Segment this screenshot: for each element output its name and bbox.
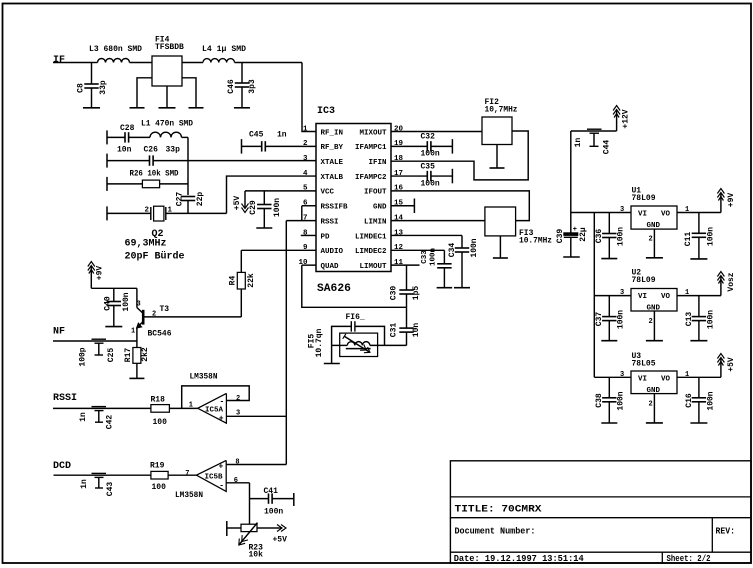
svg-text:VO: VO <box>661 376 671 384</box>
svg-text:IC5B: IC5B <box>205 474 224 482</box>
svg-text:C31: C31 <box>390 323 399 338</box>
svg-text:1n: 1n <box>79 412 88 422</box>
crystal Q2 <box>150 207 152 220</box>
ground under C40 <box>105 326 122 328</box>
svg-text:C29: C29 <box>249 200 258 215</box>
filter FI4 <box>152 56 182 86</box>
svg-text:100n: 100n <box>707 310 716 329</box>
wire +9V rail to T3 collector <box>91 287 137 289</box>
wire L1 to vertical <box>182 136 189 138</box>
svg-text:2: 2 <box>152 311 156 319</box>
svg-text:+5V: +5V <box>727 357 736 372</box>
ground FI4 left <box>130 107 145 109</box>
svg-text:1n: 1n <box>80 479 89 489</box>
svg-text:GND: GND <box>373 204 387 212</box>
svg-text:GND: GND <box>647 387 661 395</box>
power +5V at U3 output <box>720 358 722 377</box>
svg-text:L1 470n SMD: L1 470n SMD <box>141 120 193 129</box>
svg-text:78L05: 78L05 <box>632 360 656 369</box>
capacitor C25 <box>92 338 107 340</box>
capacitor C41 <box>250 498 269 500</box>
ground under C33 <box>437 287 453 289</box>
ground FI4 right <box>189 107 204 109</box>
svg-text:C39: C39 <box>556 229 565 244</box>
filter FI2 <box>482 117 512 145</box>
wire DCD row <box>54 474 151 476</box>
wire RSSI vertical to opamps <box>285 221 287 465</box>
svg-text:+5V: +5V <box>233 196 242 211</box>
ground FI2 <box>490 167 505 169</box>
wire +12V rail <box>571 130 617 132</box>
wire U1 GND pin <box>653 229 655 257</box>
svg-text:VCC: VCC <box>321 189 335 197</box>
wire minus input down to pot <box>249 483 251 524</box>
svg-text:1: 1 <box>189 402 193 410</box>
svg-text:100n: 100n <box>707 391 716 410</box>
svg-text:C37: C37 <box>595 312 604 327</box>
svg-text:IFAMPC1: IFAMPC1 <box>355 144 387 152</box>
svg-text:100: 100 <box>152 483 167 492</box>
svg-text:2: 2 <box>144 207 149 215</box>
svg-text:3: 3 <box>620 371 624 379</box>
capacitor C30 <box>406 265 408 290</box>
svg-text:6: 6 <box>234 477 238 485</box>
svg-text:C25: C25 <box>107 348 116 363</box>
ground U1 <box>646 257 663 259</box>
svg-text:C38: C38 <box>595 393 604 408</box>
wire IC3 pin 19 row <box>391 145 427 147</box>
svg-text:22k: 22k <box>247 273 256 288</box>
capacitor C16 <box>698 377 700 398</box>
IC U3 SA626 body IC3 <box>316 124 391 272</box>
power +9V at U1 output <box>720 193 722 213</box>
wire U2 GND pin <box>653 311 655 340</box>
svg-text:LIMIN: LIMIN <box>364 218 387 226</box>
wire crystal to pin4 riser <box>166 212 227 214</box>
svg-text:C46: C46 <box>227 79 236 94</box>
svg-text:3: 3 <box>620 206 624 214</box>
wire IF to L3 <box>92 62 98 64</box>
ground U3 <box>646 422 663 424</box>
ground under C46 <box>234 107 250 109</box>
wire R26 to vertical <box>160 183 188 185</box>
node C32 end stub <box>451 139 453 154</box>
svg-text:IFAMPC2: IFAMPC2 <box>355 174 387 182</box>
wire IC3 pin 13 row <box>391 234 462 236</box>
svg-text:R4: R4 <box>229 276 238 286</box>
power +5V at VCC <box>244 191 246 208</box>
capacitor C29 <box>263 191 265 205</box>
svg-text:+: + <box>219 463 224 472</box>
ground under C13 <box>690 340 707 342</box>
wire R19 to IC5B output <box>168 474 196 476</box>
wire R18 to IC5A output <box>169 407 197 409</box>
svg-text:100n: 100n <box>122 292 131 311</box>
svg-text:+: + <box>219 415 224 424</box>
ground under R17 <box>129 377 144 379</box>
svg-text:LM358N: LM358N <box>175 491 203 500</box>
svg-text:78L09: 78L09 <box>632 194 656 203</box>
node pin15 stub end <box>413 199 415 214</box>
svg-text:C43: C43 <box>106 482 115 497</box>
svg-text:+9V: +9V <box>96 266 105 281</box>
svg-text:RF_BY: RF_BY <box>321 144 344 152</box>
wiper arrow FI5 <box>344 336 370 352</box>
node C41 end stub <box>293 493 295 506</box>
svg-text:Document Number:: Document Number: <box>455 526 536 537</box>
svg-text:1: 1 <box>131 328 135 336</box>
ground U2 <box>646 340 663 342</box>
svg-text:1n: 1n <box>277 130 287 139</box>
wire U1 output row <box>677 212 721 214</box>
svg-text:100: 100 <box>153 418 168 427</box>
svg-text:R18: R18 <box>151 396 166 405</box>
svg-text:IFIN: IFIN <box>368 159 386 167</box>
wire FI4 center ground pin <box>166 86 168 108</box>
svg-text:Vosz: Vosz <box>727 272 736 291</box>
capacitor C45 <box>261 141 263 151</box>
wire bracket pin6-pin7 <box>301 206 303 221</box>
svg-text:RSSI: RSSI <box>53 393 77 404</box>
svg-text:L4 1µ SMD: L4 1µ SMD <box>202 45 246 54</box>
svg-text:100p: 100p <box>79 347 88 366</box>
inductor L1 <box>150 132 182 137</box>
filter FI3 <box>485 207 516 236</box>
svg-text:DCD: DCD <box>53 461 71 472</box>
wire IC3 pin 10 QUAD to discriminator <box>302 264 316 266</box>
svg-text:33p: 33p <box>166 146 181 155</box>
svg-text:+5V: +5V <box>273 536 288 545</box>
wire IC3 pin 8 stub <box>301 234 316 236</box>
svg-text:C41: C41 <box>264 487 279 496</box>
wire top rail down to IC3 pin 1 <box>302 63 316 132</box>
wire IC3 pin 5 VCC row <box>245 190 316 192</box>
svg-text:C36: C36 <box>595 229 604 244</box>
svg-text:1: 1 <box>303 125 308 133</box>
svg-text:RF_IN: RF_IN <box>321 129 344 137</box>
capacitor C38 <box>608 377 610 398</box>
wire +12V trunk down to U1 <box>570 131 572 213</box>
ground under C16 <box>690 422 707 424</box>
ground FI3 <box>493 257 508 259</box>
wire crystal row left <box>107 212 151 214</box>
capacitor FI6_ parallel <box>332 326 352 345</box>
svg-text:LM358N: LM358N <box>190 372 218 381</box>
capacitor C11 <box>698 213 700 234</box>
wire IC5A feedback loop <box>182 386 250 409</box>
svg-text:L3 680n SMD: L3 680n SMD <box>89 45 142 54</box>
ground under C39 <box>563 256 580 258</box>
svg-text:LIMDEC2: LIMDEC2 <box>355 248 387 256</box>
svg-text:69,3MHz: 69,3MHz <box>125 239 167 250</box>
node C35 end stub <box>451 169 453 184</box>
resistor R19 <box>151 471 168 479</box>
svg-text:SA626: SA626 <box>317 283 351 295</box>
resistor R4 <box>240 250 242 272</box>
svg-text:TITLE: 70CMRX: TITLE: 70CMRX <box>455 505 542 516</box>
capacitor C39 electrolytic <box>570 213 572 233</box>
svg-text:-: - <box>219 482 224 491</box>
wire U1 input row <box>571 212 631 214</box>
title block <box>450 461 751 563</box>
wire IC5B minus input row <box>226 482 249 484</box>
svg-text:100n: 100n <box>617 227 626 246</box>
svg-text:IC5A: IC5A <box>205 407 224 415</box>
node C45 end stub <box>241 139 243 154</box>
inductor L3 <box>98 59 130 63</box>
svg-text:100n: 100n <box>421 179 440 188</box>
wire row C28 <box>107 136 125 138</box>
svg-text:100n: 100n <box>617 391 626 410</box>
svg-text:C32: C32 <box>421 133 436 142</box>
svg-text:3p3: 3p3 <box>248 79 257 94</box>
svg-text:10,7MHz: 10,7MHz <box>485 106 518 115</box>
node stub row crystal <box>106 206 108 220</box>
svg-text:LIMDEC1: LIMDEC1 <box>355 233 387 241</box>
svg-text:10n: 10n <box>117 146 132 155</box>
wire IF input <box>53 62 92 64</box>
inductor L4 <box>203 59 235 63</box>
capacitor C35 <box>426 171 428 181</box>
svg-text:2: 2 <box>649 236 653 244</box>
svg-text:C13: C13 <box>685 312 694 327</box>
wire riser to IC3 pin 4 <box>227 176 317 213</box>
svg-text:C44: C44 <box>603 140 612 155</box>
svg-text:78L09: 78L09 <box>632 276 656 285</box>
ground under C29 <box>256 227 272 229</box>
svg-text:GND: GND <box>647 222 661 230</box>
wire U2 output row <box>677 295 721 297</box>
wire IC3 pin 2 row <box>242 145 262 147</box>
regulator U2 78L09 <box>631 289 677 312</box>
svg-text:RSSI: RSSI <box>321 218 339 226</box>
capacitor C28 <box>124 132 126 142</box>
wire FI2 ground pin <box>496 145 498 168</box>
svg-text:IC3: IC3 <box>317 106 335 117</box>
ground under C34 <box>454 287 470 289</box>
wire U2 input row <box>594 295 631 297</box>
wire U3 output row <box>677 376 721 378</box>
capacitor C36 <box>608 213 610 234</box>
svg-text:FI6_: FI6_ <box>346 313 365 322</box>
wire FI3 ground pin <box>499 236 501 258</box>
svg-text:GND: GND <box>647 304 661 312</box>
wire trunk down to U2 U3 <box>593 213 595 378</box>
svg-text:10.7qn: 10.7qn <box>315 328 324 357</box>
svg-text:100n: 100n <box>273 198 282 217</box>
ground under C38 <box>601 422 617 424</box>
capacitor C26 <box>149 155 151 165</box>
svg-text:R19: R19 <box>150 461 165 470</box>
wire IC3 pin 15 GND stub <box>391 205 414 207</box>
svg-text:+9V: +9V <box>727 193 736 208</box>
svg-text:AUDIO: AUDIO <box>321 248 344 256</box>
ground under C8 <box>83 107 100 109</box>
wire row XTALE pin3 <box>107 160 150 162</box>
wire IC3 pin 20 MIXOUT to FI2 <box>391 131 482 133</box>
potentiometer R23 <box>226 521 228 536</box>
wire row R26 left <box>107 183 142 185</box>
wire U3 input row <box>594 376 631 378</box>
svg-text:100n: 100n <box>421 150 440 159</box>
wire IC3 pin 7 RSSI <box>286 220 316 222</box>
wire IC3 pin 14 LIMIN to FI3 <box>391 220 485 222</box>
svg-text:REV:: REV: <box>716 526 736 537</box>
svg-text:33p: 33p <box>99 80 108 95</box>
wire IC3 pin 16 IFOUT to FI3 <box>391 191 529 221</box>
capacitor C8 <box>91 63 93 85</box>
svg-text:IF: IF <box>53 55 65 66</box>
capacitor C31 <box>406 307 408 328</box>
ground FI5 <box>324 363 340 365</box>
wire IC3 pin 17 row <box>391 175 427 177</box>
svg-text:LIMOUT: LIMOUT <box>359 263 387 271</box>
resistor R17 <box>136 341 138 348</box>
svg-text:C28: C28 <box>120 124 135 133</box>
ground under C36 <box>601 258 617 260</box>
svg-text:XTALE: XTALE <box>321 159 344 167</box>
ground under C11 <box>690 258 707 260</box>
wire U3 GND pin <box>653 394 655 423</box>
power +9V arrow <box>90 266 92 288</box>
node stub row R26 <box>106 177 108 191</box>
svg-text:QUAD: QUAD <box>321 263 340 271</box>
svg-text:2k2: 2k2 <box>141 347 150 362</box>
capacitor C37 <box>608 296 610 317</box>
svg-text:3: 3 <box>620 289 624 297</box>
svg-text:C42: C42 <box>106 415 115 430</box>
op-amp IC5B <box>196 460 226 491</box>
ground FI4 center <box>159 107 176 109</box>
svg-text:100n: 100n <box>430 248 438 267</box>
svg-text:NF: NF <box>53 327 65 338</box>
svg-text:C8: C8 <box>77 83 86 93</box>
power Vosz at U2 output <box>720 276 722 296</box>
svg-text:VO: VO <box>661 211 671 219</box>
svg-text:22p: 22p <box>196 192 205 207</box>
wire IC3 pin 9 AUDIO row <box>241 249 316 251</box>
capacitor C40 <box>113 288 115 301</box>
svg-text:XTALB: XTALB <box>321 174 344 182</box>
svg-text:VO: VO <box>661 293 671 301</box>
svg-text:22µ: 22µ <box>579 227 588 242</box>
svg-text:10n: 10n <box>412 323 421 338</box>
svg-text:R17: R17 <box>124 348 133 363</box>
svg-text:C26: C26 <box>144 146 159 155</box>
wire IC3 pin 11 row <box>391 264 420 266</box>
wire RSSI row <box>53 407 151 409</box>
svg-text:7: 7 <box>185 470 189 478</box>
svg-text:R26 10k SMD: R26 10k SMD <box>130 170 179 179</box>
capacitor C43 <box>92 472 107 474</box>
svg-text:VI: VI <box>638 211 647 219</box>
svg-text:Date: 19.12.1997 13:51:14: Date: 19.12.1997 13:51:14 <box>454 553 584 564</box>
wire FI2 output to pin 18 IFIN <box>391 131 528 180</box>
wire L3 to FI4 <box>130 62 153 64</box>
resistor R26 <box>142 180 159 188</box>
svg-text:IFOUT: IFOUT <box>364 189 387 197</box>
op-amp IC5A <box>198 393 227 423</box>
svg-text:C35: C35 <box>421 162 436 171</box>
svg-text:3: 3 <box>236 410 240 418</box>
svg-text:100n: 100n <box>470 238 479 257</box>
wire IC5A plus input row <box>226 415 286 417</box>
capacitor C44 <box>587 128 602 130</box>
wire C28 to L1 <box>129 136 150 138</box>
ground under C37 <box>601 340 617 342</box>
svg-text:2: 2 <box>649 401 653 409</box>
svg-text:C40: C40 <box>104 296 113 311</box>
regulator U3 78L05 <box>631 371 677 394</box>
svg-text:2: 2 <box>649 318 653 326</box>
wire IC3 pin 6 stub <box>302 205 316 207</box>
capacitor C27 <box>181 196 195 198</box>
capacitor C46 <box>241 63 243 84</box>
svg-text:PD: PD <box>321 233 331 241</box>
svg-text:-: - <box>220 398 225 407</box>
capacitor C13 <box>698 296 700 317</box>
svg-text:BC546: BC546 <box>148 330 172 339</box>
svg-text:VI: VI <box>638 293 647 301</box>
svg-text:3: 3 <box>303 155 308 163</box>
svg-text:10k: 10k <box>249 551 264 560</box>
svg-text:10.7MHz: 10.7MHz <box>519 237 552 246</box>
svg-text:100n: 100n <box>264 508 283 517</box>
transistor T3 BC546 <box>142 310 145 325</box>
svg-text:VI: VI <box>638 376 647 384</box>
wire FI4 to L4 <box>182 62 203 64</box>
capacitor C33 <box>443 250 445 263</box>
svg-text:TFSBDB: TFSBDB <box>155 43 184 52</box>
resistor R18 <box>151 405 170 413</box>
svg-text:20pF Bürde: 20pF Bürde <box>125 251 185 263</box>
svg-text:8: 8 <box>235 459 239 467</box>
svg-text:3: 3 <box>137 301 141 309</box>
svg-text:100n: 100n <box>617 310 626 329</box>
node stub row C28 <box>106 130 108 144</box>
node stub row C26 <box>106 154 108 168</box>
svg-text:100n: 100n <box>707 227 716 246</box>
wire FI5 ground leg <box>331 345 333 363</box>
svg-text:1p5: 1p5 <box>412 286 421 301</box>
wiper arrow R23 <box>239 523 258 545</box>
wire vertical L1/R26/C27 <box>187 137 189 195</box>
wire R4 to T3 base <box>145 316 242 318</box>
svg-text:MIXOUT: MIXOUT <box>359 129 387 137</box>
wire FI4 right ground pin <box>182 78 196 108</box>
power +5V arrow at R23 <box>271 527 282 529</box>
svg-text:C45: C45 <box>249 130 264 139</box>
svg-text:T3: T3 <box>160 305 170 314</box>
regulator U1 78L09 <box>631 206 677 229</box>
wire FI4 left ground pin <box>137 78 152 108</box>
wire NF row <box>53 340 137 342</box>
discriminator FI5 <box>340 333 378 356</box>
power +12V arrow <box>616 110 618 131</box>
svg-text:RSSIFB: RSSIFB <box>321 204 349 212</box>
capacitor C42 <box>92 406 107 408</box>
svg-text:Sheet: 2/2: Sheet: 2/2 <box>667 553 711 564</box>
capacitor C32 <box>426 141 428 151</box>
wire C26 to IC3 pin 3 <box>153 160 316 162</box>
capacitor C34 <box>461 235 463 248</box>
svg-text:C30: C30 <box>390 286 399 301</box>
wire L4 to corner <box>235 62 303 64</box>
svg-text:1n: 1n <box>574 138 583 148</box>
wire IC3 pin 12 row <box>391 249 444 251</box>
svg-text:C27: C27 <box>176 192 185 207</box>
svg-text:C33: C33 <box>421 250 429 264</box>
